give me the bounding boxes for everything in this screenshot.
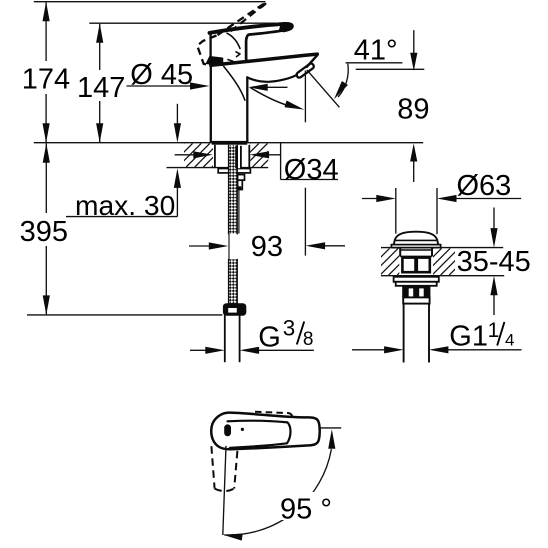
svg-text:41°: 41° — [354, 34, 398, 66]
svg-text:G: G — [258, 322, 281, 354]
svg-text:Ø34: Ø34 — [284, 154, 339, 186]
svg-text:Ø63: Ø63 — [457, 170, 512, 202]
svg-text:147: 147 — [77, 72, 125, 104]
svg-text:395: 395 — [20, 216, 68, 248]
svg-text:174: 174 — [22, 63, 70, 95]
svg-text:4: 4 — [505, 331, 514, 350]
svg-text:35-45: 35-45 — [457, 246, 531, 278]
svg-text:3: 3 — [283, 316, 296, 341]
svg-text:1: 1 — [488, 319, 500, 342]
svg-text:G1: G1 — [449, 321, 488, 353]
svg-text:Ø 45: Ø 45 — [130, 59, 193, 91]
svg-text:8: 8 — [303, 329, 314, 350]
svg-text:89: 89 — [397, 93, 429, 125]
svg-text:93: 93 — [251, 231, 283, 263]
svg-text:95 °: 95 ° — [280, 494, 332, 526]
svg-text:max. 30: max. 30 — [75, 189, 175, 221]
